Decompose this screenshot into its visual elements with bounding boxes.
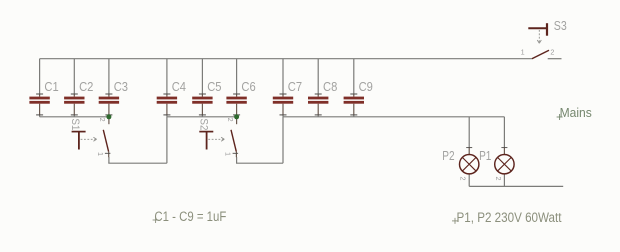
wire S1 output down [108,157,110,163]
svg-text:C1 - C9 = 1uF: C1 - C9 = 1uF [154,209,226,224]
wire C1 top stub [39,59,41,94]
svg-text:2: 2 [226,118,235,122]
capacitor C4 [157,94,177,115]
wire C6 bottom stub [236,115,238,117]
svg-text:C1: C1 [44,79,58,94]
wire S1 to C4 column [108,162,167,164]
svg-text:C6: C6 [241,79,255,94]
wire C5 top stub [201,59,203,94]
svg-text:2: 2 [550,48,554,57]
wire C2 bottom stub [73,115,75,117]
wire group2 bottom bus [167,116,237,118]
switch S3 [528,23,549,59]
switch S2 [199,117,238,157]
wire P1 riser [503,117,505,147]
svg-text:2: 2 [494,177,503,181]
wire C3 top stub [108,59,110,94]
wire P2 riser [468,117,470,147]
lamp P2 [460,147,479,174]
wire C3 bottom stub [108,115,110,117]
svg-text:P1: P1 [479,148,491,163]
svg-text:C7: C7 [288,79,302,94]
svg-text:1: 1 [96,152,105,156]
wire C1 bottom stub [39,115,41,117]
capacitor C6 [226,94,246,115]
capacitor C7 [273,94,293,115]
svg-text:C5: C5 [207,79,221,94]
switch S1 [72,117,111,157]
wire S2 to C7 column [236,162,283,164]
wire riser to group3 [282,117,284,163]
capacitor C5 [192,94,212,115]
wire group1 bottom bus [40,116,109,118]
capacitor C8 [308,94,328,115]
wire C7 top stub [282,59,284,94]
wire C7 bottom stub [282,115,284,117]
svg-text:2: 2 [459,177,468,181]
svg-text:P1, P2 230V 60Watt: P1, P2 230V 60Watt [457,210,562,225]
svg-text:S1: S1 [69,118,81,130]
wire C2 top stub [73,59,75,94]
capacitor C9 [344,94,364,115]
wire S2 output down [236,157,238,163]
wire C8 bottom stub [317,115,319,117]
capacitor C3 [99,94,119,115]
svg-text:1: 1 [224,152,233,156]
wire C9 top stub [353,59,355,94]
capacitor C1 [29,94,49,115]
wire P2 drop [468,174,470,186]
wire P1 drop [503,174,505,186]
wire riser to group2 [166,117,168,163]
wire C9 bottom stub [353,115,355,117]
svg-text:Mains: Mains [560,105,593,120]
wire C5 bottom stub [201,115,203,117]
wire lamps bottom bus to Mains [469,185,563,187]
svg-text:C8: C8 [323,79,337,94]
wire C4 bottom stub [166,115,168,117]
wire group3 bottom bus [283,116,504,118]
svg-text:P2: P2 [442,148,454,163]
svg-text:C9: C9 [359,79,373,94]
junction dot at S2 [234,114,239,119]
wire top bus [40,58,532,60]
wire S3 pin2 to Mains [548,58,562,60]
capacitor C2 [64,94,84,115]
wire C4 top stub [166,59,168,94]
lamp P1 [495,147,514,174]
wire C8 top stub [317,59,319,94]
svg-text:S3: S3 [554,18,567,33]
svg-text:S2: S2 [198,118,210,130]
svg-text:C3: C3 [114,79,128,94]
svg-text:C4: C4 [172,79,186,94]
wire C6 top stub [236,59,238,94]
junction dot at S1 [106,114,111,119]
svg-text:C2: C2 [79,79,93,94]
svg-text:1: 1 [521,48,525,57]
svg-text:2: 2 [98,118,107,122]
